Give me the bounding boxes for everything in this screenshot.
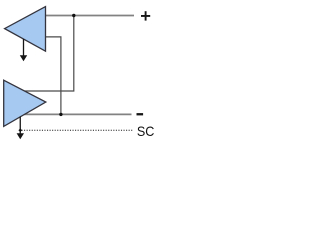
op-amp A2 (right-pointing buffer)	[4, 80, 46, 126]
op-amp A1 (left-pointing buffer)	[5, 7, 46, 52]
wire: amp A1 lower input to - line	[46, 37, 61, 115]
svg-text:SC: SC	[137, 123, 155, 139]
label: - terminal	[137, 113, 144, 115]
wire: feedback from + node down to amp A2 top edge	[20, 16, 74, 92]
node: junction dot on - line	[59, 113, 62, 116]
arrow: current direction below A1	[20, 39, 27, 61]
node: SC junction diamond	[18, 128, 22, 132]
wire: positive output line (net +)	[46, 15, 135, 17]
wire: negative output line (net -)	[20, 113, 132, 115]
node: junction dot on + line	[72, 14, 75, 17]
arrow: current direction below A2	[17, 117, 24, 140]
label: + terminal	[141, 11, 150, 20]
wire: dotted short-circuit line (net SC)	[22, 129, 134, 131]
